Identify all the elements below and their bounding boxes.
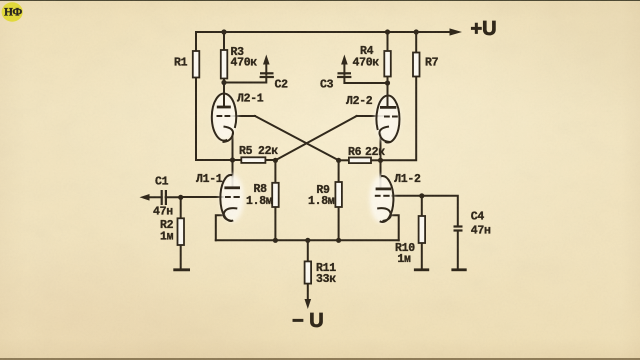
wire R1 branch vertical <box>195 32 197 160</box>
resistor R11 <box>305 261 312 283</box>
tube L1-2 envelope <box>370 175 394 223</box>
logo NF badge <box>2 2 23 21</box>
capacitor C4 plates <box>454 227 463 231</box>
wire grid L1-2 to output <box>392 196 458 226</box>
tube L2-2 cathode <box>379 127 390 143</box>
tube L2-2 grid dashes <box>384 116 398 118</box>
resistor R9 <box>335 182 342 207</box>
tube L2-1 anode <box>223 83 225 107</box>
resistor R4 <box>384 51 391 77</box>
resistor R1 <box>193 51 200 78</box>
tube L2-1 cathode <box>223 127 234 143</box>
wire grid L2-2 horizontal <box>357 115 383 117</box>
wire bottom cathode rail <box>216 239 399 241</box>
wire R3 branch vertical <box>223 32 225 107</box>
arrow -U down <box>305 299 312 309</box>
wire L1-1 cathode to rail <box>216 215 225 240</box>
resistor R6 <box>349 158 371 164</box>
terminal bar R2 <box>173 268 190 271</box>
wire R4 branch vertical <box>387 32 389 107</box>
wire cathode lead tube L2-1 <box>232 134 234 160</box>
wire R10 branch <box>421 196 423 270</box>
junction node dots <box>178 29 424 243</box>
wire top +U rail <box>196 31 451 33</box>
wire R1 bottom to junction A1 <box>196 159 233 161</box>
tube L1-1 grid dashes <box>225 196 240 198</box>
tube L1-1 envelope <box>220 174 244 222</box>
resistor R8 <box>272 183 279 207</box>
tube L2-2 envelope <box>375 95 400 143</box>
wire R11 branch <box>307 240 309 300</box>
capacitor C2 plates <box>260 73 274 77</box>
capacitor C1 plates <box>162 190 166 205</box>
tube L1-1 anode <box>224 186 240 189</box>
wire L1-2 cathode to rail <box>390 215 399 240</box>
terminal bar C4 <box>451 268 466 271</box>
arrow +U <box>450 28 463 35</box>
tube L1-2 grid dashes <box>375 195 390 197</box>
tube L2-2 anode <box>387 83 389 107</box>
resistor R10 <box>419 216 426 243</box>
capacitor C3 plates <box>337 73 351 77</box>
wire R8 branch <box>274 160 276 240</box>
tube L1-2 anode <box>376 187 392 190</box>
wire C4 bottom <box>457 231 459 270</box>
tube L2-1 grid dashes <box>217 115 231 117</box>
wire cross diagonal B <box>275 116 356 160</box>
arrow C1 input left <box>140 194 150 201</box>
wire R2 branch <box>180 197 182 269</box>
resistor R7 <box>413 53 420 77</box>
wire cross diagonal A <box>255 116 339 160</box>
tube L1-2 cathode <box>377 208 391 221</box>
wire anode lead tube L1-2 <box>380 160 382 189</box>
capacitor C2 arrow <box>265 61 267 76</box>
wire C1 junction to grid L1-1 <box>181 196 224 198</box>
wire R5 leads <box>233 159 242 161</box>
resistor R3 <box>221 50 228 79</box>
wire cathode lead tube L2-2 <box>380 134 382 160</box>
wire C3 tap horizontal <box>344 78 387 84</box>
wire R7 branch vertical <box>381 32 417 160</box>
tube L1-1 cathode <box>224 208 238 221</box>
capacitor C3 arrow <box>343 61 345 76</box>
wire C2 tap horizontal <box>224 78 266 83</box>
wire R6 leads <box>339 159 349 161</box>
wire anode lead tube L1-1 <box>232 160 234 188</box>
tube L2-1 envelope <box>212 93 237 141</box>
wire grid L2-1 horizontal <box>230 115 255 117</box>
resistor R2 <box>178 218 185 245</box>
wire C1 input <box>146 196 162 198</box>
terminal bar R10 <box>414 268 429 271</box>
wire R9 branch <box>338 160 340 240</box>
resistor R5 <box>241 157 265 163</box>
